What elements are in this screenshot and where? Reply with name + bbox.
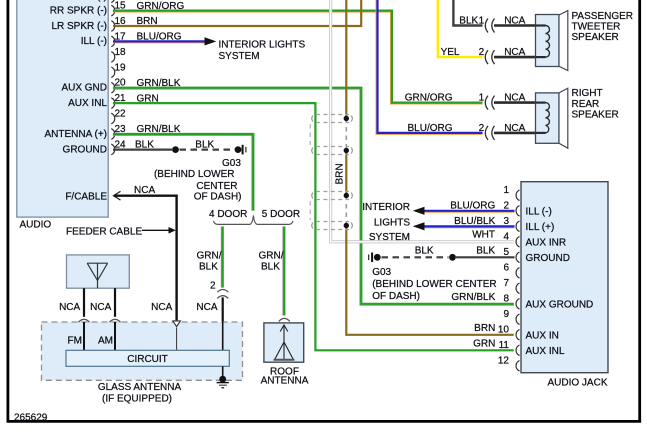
audio jack pin 2 ILL (-) (450, 200, 552, 217)
audio jack pin 11 AUX INL (473, 338, 565, 357)
wire F/CABLE to glass antenna (114, 196, 177, 321)
svg-text:4: 4 (503, 231, 509, 242)
svg-text:WHT: WHT (472, 230, 495, 241)
wire BLK 4 door to glass antenna (222, 297, 224, 321)
svg-text:3: 3 (503, 216, 509, 227)
coax line inside glass box (176, 328, 178, 351)
inline connector row 2 (312, 147, 353, 155)
wire circuit to chassis ground (222, 366, 224, 377)
wire FM antenna lead (83, 288, 85, 317)
svg-text:OF DASH): OF DASH) (372, 291, 420, 302)
svg-text:AUX INL: AUX INL (526, 346, 565, 357)
wire BRN pin16 (exits top) (113, 0, 361, 26)
tweeter pin1 labels (459, 16, 525, 27)
right rear speaker pin1 labels (405, 93, 526, 104)
wire GRN pin21 to audio jack pin11 (113, 103, 514, 350)
svg-text:12: 12 (498, 355, 510, 366)
tweeter pin1 inline connector (485, 19, 494, 33)
audio jack pin 8 AUX GROUND (451, 292, 593, 311)
svg-text:11: 11 (499, 340, 510, 351)
pin 21 AUX INL (68, 93, 159, 109)
svg-text:G03: G03 (372, 267, 391, 278)
svg-text:SYSTEM: SYSTEM (369, 232, 410, 243)
svg-text:FEEDER CABLE: FEEDER CABLE (66, 227, 142, 238)
audio jack pin 1 (503, 185, 519, 201)
svg-text:G03: G03 (222, 158, 241, 169)
svg-text:NCA: NCA (59, 302, 80, 313)
pin 18 (111, 47, 126, 62)
FM lead connector arc (79, 319, 90, 322)
svg-text:BLK: BLK (415, 245, 434, 256)
svg-text:INTERIOR: INTERIOR (362, 202, 410, 213)
svg-text:NCA: NCA (196, 302, 217, 313)
svg-text:6: 6 (503, 262, 509, 273)
wire GRN/BLK 5 door (283, 227, 284, 316)
4 door / 5 door branch labels (209, 209, 300, 220)
4 door wire inside glass box (222, 322, 224, 351)
svg-text:ILL (-): ILL (-) (526, 207, 552, 218)
svg-text:AUDIO: AUDIO (20, 219, 52, 230)
AM wire inside glass box (114, 322, 116, 350)
svg-text:19: 19 (115, 62, 127, 73)
audio jack pin 6 (503, 262, 519, 278)
wire NCA to right rear speaker pin2 (494, 132, 537, 135)
audio jack pin 9 (503, 309, 519, 325)
svg-text:PASSENGER: PASSENGER (572, 11, 634, 22)
wire BLU/ORG jack pin2 to interior lights (424, 211, 515, 212)
4 door inline connector (217, 290, 228, 299)
svg-text:RR SPKR (-): RR SPKR (-) (50, 5, 107, 16)
svg-text:FM: FM (68, 335, 82, 346)
svg-text:GROUND: GROUND (526, 253, 570, 264)
wire NCA to tweeter pin2 (494, 56, 537, 59)
audio jack pin 10 AUX IN (474, 323, 559, 342)
svg-text:ILL (-): ILL (-) (81, 36, 107, 47)
svg-text:2: 2 (210, 281, 216, 292)
svg-text:8: 8 (503, 293, 509, 304)
svg-text:4 DOOR: 4 DOOR (209, 209, 247, 220)
wire GRN/BLK 4 door (221, 227, 222, 288)
svg-text:CENTER: CENTER (196, 181, 237, 192)
svg-text:AUX GND: AUX GND (61, 83, 107, 94)
coax termination triangle (173, 321, 181, 327)
svg-text:9: 9 (503, 309, 509, 320)
svg-text:BLK: BLK (459, 16, 478, 27)
svg-text:1: 1 (503, 185, 509, 196)
svg-text:REAR: REAR (572, 99, 600, 110)
junction dot connector row 3 (344, 193, 349, 198)
AM lead connector arc (110, 319, 121, 322)
svg-text:RF SPKR (-): RF SPKR (-) (51, 0, 107, 3)
4/5 door brace (213, 215, 293, 224)
svg-text:CIRCUIT: CIRCUIT (127, 354, 168, 365)
wire GRN/ORG pin15 to right rear speaker (113, 11, 483, 104)
connector C AUDIO (head unit) (17, 0, 108, 230)
audio jack pin 12 (498, 355, 520, 371)
svg-text:GRN/: GRN/ (197, 251, 222, 262)
svg-text:GRN/: GRN/ (259, 251, 284, 262)
svg-text:AM: AM (98, 335, 113, 346)
svg-text:RIGHT: RIGHT (572, 88, 603, 99)
svg-text:GLASS ANTENNA: GLASS ANTENNA (98, 382, 182, 393)
pin 17 ILL (-) (81, 31, 182, 47)
wire GRN/BLK pin20 to audio jack pin8 (113, 88, 514, 305)
svg-text:1: 1 (479, 16, 485, 27)
wire BLK pin24 to ground G03 (113, 149, 234, 151)
svg-text:2: 2 (479, 123, 485, 134)
svg-text:YEL: YEL (441, 47, 460, 58)
junction dot on BLK wire (172, 146, 179, 153)
svg-text:AUDIO JACK: AUDIO JACK (547, 378, 607, 389)
svg-text:SYSTEM: SYSTEM (219, 51, 260, 62)
wire BRN (from top) to audio jack pin10 (346, 0, 514, 335)
svg-text:F/CABLE: F/CABLE (65, 191, 107, 202)
svg-text:(BEHIND LOWER CENTER: (BEHIND LOWER CENTER (372, 279, 496, 290)
svg-text:SPEAKER: SPEAKER (572, 110, 619, 121)
ground G03 text block (audio jack side) (372, 267, 496, 302)
svg-text:NCA: NCA (151, 302, 172, 313)
svg-text:AUX INR: AUX INR (526, 238, 567, 249)
chassis ground (glass antenna) (217, 376, 229, 388)
ground G03 text block (154, 158, 242, 203)
svg-text:(IF EQUIPPED): (IF EQUIPPED) (102, 394, 172, 405)
svg-text:LIGHTS: LIGHTS (374, 218, 410, 229)
wire NCA to right rear speaker pin1 (494, 101, 537, 104)
svg-text:BLK: BLK (199, 262, 218, 273)
wire NCA to tweeter pin1 (494, 24, 537, 27)
svg-text:TWEETER: TWEETER (572, 21, 621, 32)
svg-text:265629: 265629 (14, 412, 48, 423)
svg-text:BLU/ORG: BLU/ORG (407, 123, 452, 134)
audio jack pin 5 GROUND (415, 245, 570, 264)
wire AM antenna lead (114, 288, 116, 317)
audio jack pin 7 (503, 278, 519, 294)
pin 16 LR SPKR (-) (51, 16, 157, 32)
pin 20 AUX GND (61, 78, 180, 94)
wire BLU/ORG (from top) to right rear speaker pin2 (376, 0, 482, 134)
audio jack pin 3 ILL (+) (454, 216, 554, 233)
4 door wire label GRN/BLK (197, 251, 222, 273)
interior lights system label (left) (219, 39, 306, 62)
junction dot connector row 2 (344, 148, 349, 153)
svg-text:BLU/BLK: BLU/BLK (454, 216, 495, 227)
inline connector joining dash (rows 1-2) (309, 124, 311, 145)
junction dot connector row 4 (344, 223, 349, 228)
svg-text:ANTENNA: ANTENNA (261, 375, 309, 386)
tweeter pin2 inline connector (485, 50, 494, 64)
NCA labels row (59, 302, 173, 313)
svg-text:AUX GROUND: AUX GROUND (526, 300, 594, 311)
svg-text:BRN: BRN (335, 163, 346, 184)
FM wire inside glass box (83, 322, 85, 350)
glass antenna module (42, 322, 243, 405)
right rear speaker pin2 labels (407, 123, 525, 134)
svg-text:10: 10 (498, 324, 510, 335)
svg-text:OF DASH): OF DASH) (194, 192, 242, 203)
svg-text:BLK: BLK (261, 262, 280, 273)
svg-text:2: 2 (503, 200, 509, 211)
right rear speaker pin1 inline connector (485, 96, 494, 110)
right rear speaker pin2 inline connector (485, 126, 494, 140)
speaker LS passenger tweeter (536, 11, 634, 71)
pin 14 (partial, clipped at top) (51, 0, 115, 3)
svg-text:ANTENNA (+): ANTENNA (+) (44, 129, 107, 140)
svg-text:1: 1 (479, 93, 485, 104)
wire YEL (from top) to tweeter pin2 (438, 0, 483, 57)
svg-text:GROUND: GROUND (63, 144, 107, 155)
svg-text:BRN: BRN (474, 323, 495, 334)
svg-text:2: 2 (479, 47, 485, 58)
wire BLK (from top) to tweeter pin1 (453, 0, 482, 26)
arrow to interior lights system (205, 37, 217, 45)
tweeter pin2 labels (441, 47, 526, 58)
svg-text:18: 18 (115, 47, 127, 58)
wire BLK jack pin5 to ground G03 (382, 256, 515, 258)
ground G03 stub (243, 145, 246, 155)
wire GRN/BLK pin23 to 4/5 door antennas (113, 134, 253, 211)
svg-text:INTERIOR LIGHTS: INTERIOR LIGHTS (219, 39, 306, 50)
inline connector row 3 (312, 192, 353, 200)
wire BLU/BLK jack pin3 to interior lights (424, 226, 515, 227)
junction dot BLK jack pin5 (449, 254, 456, 261)
svg-text:BLU/ORG: BLU/ORG (450, 200, 495, 211)
pin 19 (111, 62, 126, 77)
speaker LS right rear (536, 88, 619, 148)
svg-text:NCA: NCA (90, 302, 111, 313)
wire WHT (from top) to audio jack pin4 (331, 0, 514, 242)
svg-text:ILL (+): ILL (+) (526, 222, 555, 233)
5 door wire label GRN/BLK (259, 251, 284, 273)
ground G03 stub (audio jack side) (369, 253, 372, 263)
svg-text:AUX IN: AUX IN (526, 331, 559, 342)
svg-text:(BEHIND LOWER: (BEHIND LOWER (154, 169, 235, 180)
ground G03 dot (235, 146, 242, 153)
pin F/CABLE (65, 185, 155, 202)
junction dot connector row 1 (344, 116, 349, 121)
inline connector row 4 (312, 222, 353, 230)
wire BLU/ORG pin17 to interior lights system (113, 41, 205, 42)
svg-text:LR SPKR (-): LR SPKR (-) (51, 21, 107, 32)
arrow interior lights (pin2) (413, 207, 425, 215)
roof antenna (261, 323, 309, 386)
svg-text:BLK: BLK (476, 245, 495, 256)
inline connector joining dash (rows 3-4) (309, 201, 311, 220)
svg-text:5: 5 (503, 247, 509, 258)
connector C AUDIO JACK (521, 182, 608, 389)
svg-text:GRN: GRN (473, 338, 495, 349)
svg-text:GRN/ORG: GRN/ORG (405, 93, 453, 104)
svg-text:5 DOOR: 5 DOOR (262, 209, 300, 220)
inline connector row 1 (312, 115, 353, 123)
pin 24 GROUND (63, 139, 155, 155)
circuit box (66, 350, 229, 366)
pin 23 ANTENNA (+) (44, 124, 180, 140)
pin 15 RR SPKR (-) (50, 1, 185, 17)
svg-text:7: 7 (503, 278, 509, 289)
svg-text:AUX INL: AUX INL (68, 98, 107, 109)
pin 22 (111, 109, 126, 124)
arrow interior lights (pin3) (413, 222, 425, 230)
antenna element box (67, 255, 130, 288)
svg-text:22: 22 (115, 109, 127, 120)
audio jack pin 4 AUX INR (472, 230, 566, 249)
svg-text:SPEAKER: SPEAKER (572, 32, 619, 43)
svg-text:BLK: BLK (195, 140, 214, 151)
roof antenna connector arc (279, 318, 290, 321)
interior lights system label (right) (362, 202, 410, 243)
svg-text:GRN/BLK: GRN/BLK (451, 292, 495, 303)
feeder cable callout (66, 227, 176, 238)
ground G03 dot (audio jack side) (374, 254, 381, 261)
